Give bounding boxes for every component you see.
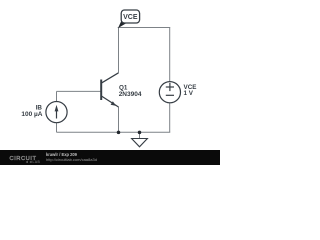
svg-text:100 µA: 100 µA bbox=[21, 111, 42, 118]
wire: top horizontal from flag corner to VCE source bbox=[118, 27, 171, 29]
ground bbox=[132, 139, 148, 147]
voltage source VCE bbox=[159, 82, 180, 103]
wire: collector vertical bbox=[118, 28, 120, 73]
wire: base horizontal bbox=[57, 90, 102, 92]
junction: ground to bottom wire bbox=[138, 131, 142, 135]
wire: right vertical top into VCE source bbox=[169, 28, 171, 82]
footer bar bbox=[0, 150, 220, 165]
wire: ground stub bbox=[139, 132, 141, 138]
wire: IB source top vertical bbox=[56, 91, 58, 101]
svg-text:◄◄LAB: ◄◄LAB bbox=[25, 160, 40, 164]
wire: right vertical below VCE source bbox=[169, 103, 171, 133]
svg-text:2N3904: 2N3904 bbox=[119, 91, 142, 98]
node VCE flag bbox=[121, 10, 139, 23]
wire: emitter vertical bbox=[118, 107, 120, 133]
junction: emitter to bottom wire bbox=[117, 131, 121, 135]
current source IB bbox=[46, 102, 67, 123]
svg-text:1 V: 1 V bbox=[184, 90, 194, 97]
svg-text:VCE: VCE bbox=[123, 14, 138, 21]
wire: bottom horizontal bbox=[57, 131, 171, 133]
wire: IB source bottom vertical bbox=[56, 122, 58, 132]
svg-text:http://circuitlab.com/caa8a3d: http://circuitlab.com/caa8a3d bbox=[46, 157, 97, 162]
node VCE flag pointer bbox=[118, 21, 126, 28]
transistor Q1 bbox=[101, 73, 118, 107]
